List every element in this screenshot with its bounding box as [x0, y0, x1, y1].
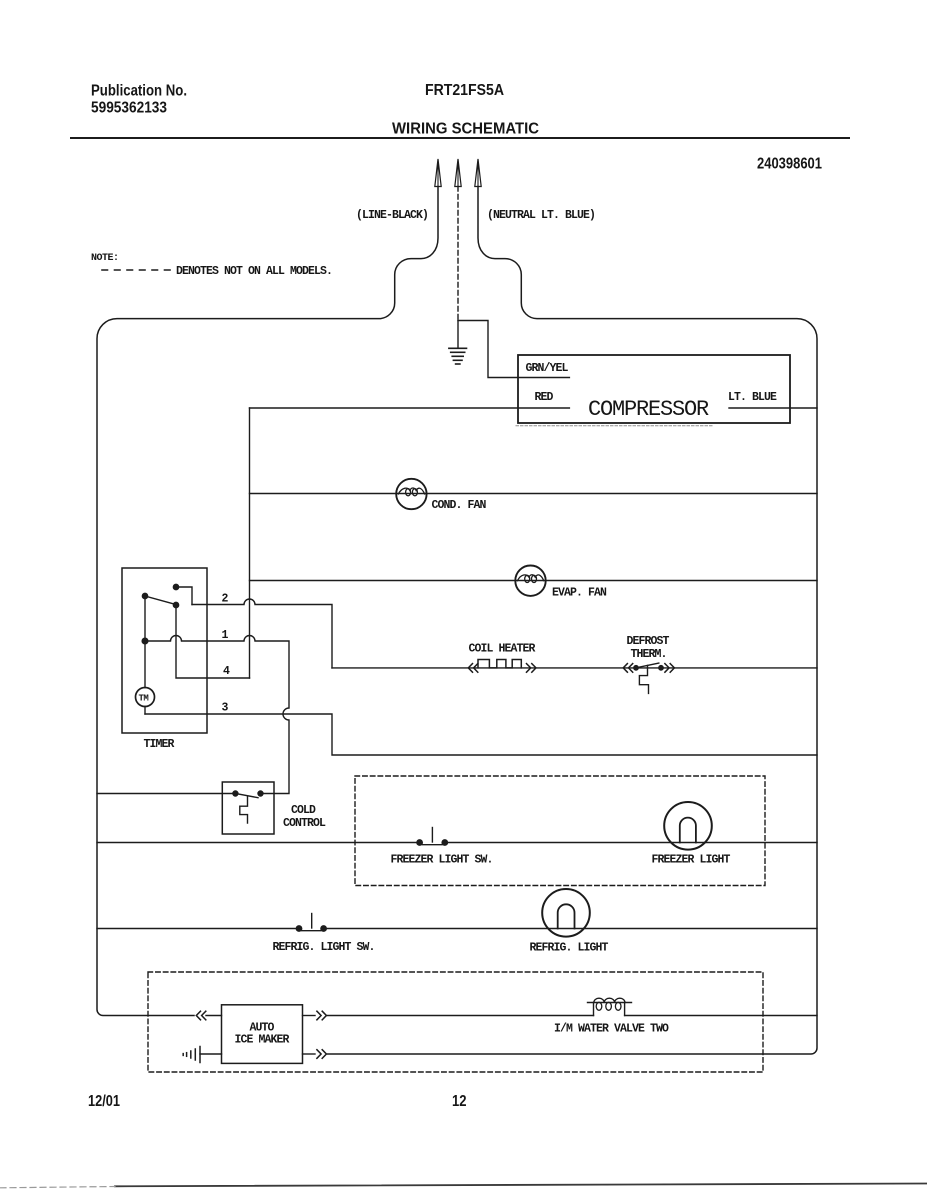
connector chevrons left of coil heater: [468, 664, 478, 673]
wire RED lead: [250, 407, 570, 409]
timer pivot contact: [142, 593, 147, 598]
wire ground node to GRN/YEL: [458, 321, 569, 378]
timer contact lower: [173, 602, 178, 607]
wire left rail to cold control: [97, 793, 233, 795]
svg-text:5995362133: 5995362133: [91, 100, 167, 117]
wire EVAP. FAN rung: [250, 580, 818, 582]
resistor COIL HEATER: [478, 660, 521, 668]
wire timer contact 2 to terminal 2: [176, 587, 192, 605]
ground (earth symbol): [449, 348, 467, 364]
timer switch blade: [145, 596, 174, 604]
wire TM to wire 3: [144, 707, 146, 715]
svg-text:CONTROL: CONTROL: [283, 817, 326, 830]
svg-text:2: 2: [222, 593, 229, 606]
svg-text:GRN/YEL: GRN/YEL: [526, 362, 569, 375]
wire 3 (TM to neutral rung): [145, 714, 817, 755]
svg-text:TM: TM: [139, 694, 149, 704]
svg-text:COIL HEATER: COIL HEATER: [469, 643, 536, 656]
auto ice maker box: [222, 1005, 303, 1064]
svg-text:FREEZER LIGHT SW.: FREEZER LIGHT SW.: [391, 854, 493, 867]
svg-text:EVAP. FAN: EVAP. FAN: [552, 587, 607, 600]
svg-text:RED: RED: [535, 391, 554, 404]
svg-text:FREEZER LIGHT: FREEZER LIGHT: [652, 854, 731, 867]
svg-text:(LINE-BLACK): (LINE-BLACK): [356, 209, 428, 222]
switch FREEZER LIGHT SW.: [417, 828, 448, 846]
connector chevrons left of defrost therm: [623, 664, 633, 673]
svg-text:ICE MAKER: ICE MAKER: [235, 1034, 290, 1047]
wire upper output to water valve: [327, 1015, 594, 1017]
svg-text:12/01: 12/01: [88, 1093, 120, 1110]
svg-text:DEFROST: DEFROST: [627, 635, 670, 648]
svg-text:Publication No.: Publication No.: [91, 83, 187, 100]
wire COND. FAN rung: [250, 493, 818, 495]
svg-text:(NEUTRAL LT. BLUE): (NEUTRAL LT. BLUE): [487, 209, 595, 222]
connector chevrons ice maker lower output: [317, 1050, 327, 1059]
svg-text:3: 3: [222, 702, 229, 715]
svg-text:I/M WATER VALVE TWO: I/M WATER VALVE TWO: [554, 1023, 669, 1036]
junction timer motor node: [142, 638, 148, 644]
svg-text:1: 1: [222, 629, 229, 642]
svg-text:COMPRESSOR: COMPRESSOR: [588, 397, 709, 422]
switch DEFROST THERM.: [634, 663, 663, 693]
wire left rail: LINE prong down into outer border left side: [97, 187, 438, 1016]
wire junction to TM motor: [144, 641, 146, 688]
wire water valve to right rail: [625, 1015, 817, 1017]
wire chassis ground to ice maker: [200, 1053, 222, 1055]
svg-text:TIMER: TIMER: [144, 738, 175, 751]
wire timer lower contact down to terminal 4: [176, 605, 250, 678]
wire refrigerator light rung: [97, 928, 817, 930]
connector chevrons into ice maker (left): [196, 1011, 206, 1020]
wire freezer light rung: [97, 842, 817, 844]
wire ground prong dashed shaft: [457, 187, 459, 321]
connector chevrons ice maker upper output: [317, 1011, 327, 1020]
wire coil heater rung: [332, 667, 817, 669]
chassis ground at ice maker: [183, 1047, 200, 1063]
cold control box: [222, 782, 274, 834]
svg-text:WIRING SCHEMATIC: WIRING SCHEMATIC: [392, 121, 539, 138]
compressor box: [518, 355, 790, 423]
timer box: [122, 568, 207, 733]
svg-text:240398601: 240398601: [757, 156, 822, 173]
svg-text:REFRIG. LIGHT SW.: REFRIG. LIGHT SW.: [273, 941, 375, 954]
svg-text:THERM.: THERM.: [631, 648, 667, 661]
wire 1 (timer junction to cold control): [145, 636, 289, 794]
wire timer pivot down to junction: [144, 596, 146, 641]
motor EVAP. FAN: [515, 566, 545, 596]
svg-text:REFRIG. LIGHT: REFRIG. LIGHT: [530, 942, 609, 955]
title rule: [71, 137, 849, 139]
note dashed sample: [102, 269, 171, 271]
timer contact 2 (top): [173, 584, 178, 589]
wire 2 (timer terminal 2 to coil heater feed): [192, 599, 332, 668]
ice maker dashed box: [148, 972, 763, 1072]
plug prong LINE-BLACK arrow: [435, 159, 441, 187]
coil I/M WATER VALVE TWO: [588, 998, 632, 1015]
plug prong ground arrow: [455, 159, 461, 187]
motor COND. FAN: [396, 479, 426, 509]
motor TM (timer motor): [136, 688, 155, 707]
svg-text:NOTE:: NOTE:: [91, 253, 119, 264]
wire ice maker lower output: [303, 1053, 316, 1055]
connector chevrons right of coil heater: [527, 664, 537, 673]
wire ice maker upper output: [303, 1015, 316, 1017]
svg-text:LT. BLUE: LT. BLUE: [728, 391, 777, 404]
switch REFRIG. LIGHT SW.: [296, 914, 326, 932]
wire right rail: NEUTRAL prong down into outer border right side: [328, 187, 818, 1055]
lamp FREEZER LIGHT: [664, 802, 712, 850]
wire rail A vertical (timer 4 to RED): [249, 408, 251, 678]
svg-text:COLD: COLD: [291, 804, 316, 817]
scan artifact under compressor: [516, 425, 713, 427]
wire LT. BLUE lead to right rail: [729, 407, 817, 409]
svg-text:FRT21FS5A: FRT21FS5A: [425, 82, 504, 99]
svg-text:4: 4: [223, 665, 230, 678]
svg-text:COND. FAN: COND. FAN: [432, 499, 487, 512]
bottom scan edge line: [115, 1184, 927, 1187]
wire ground prong to earth: [457, 321, 459, 348]
switch COLD CONTROL: [233, 791, 263, 823]
svg-text:DENOTES NOT ON ALL MODELS.: DENOTES NOT ON ALL MODELS.: [176, 265, 332, 278]
lamp REFRIG. LIGHT: [542, 889, 590, 937]
freezer compartment dashed box: [355, 776, 765, 886]
connector chevrons right of defrost therm: [665, 664, 675, 673]
plug prong NEUTRAL arrow: [475, 159, 481, 187]
svg-text:12: 12: [452, 1093, 467, 1110]
wire chevron to ice maker box: [206, 1015, 222, 1017]
